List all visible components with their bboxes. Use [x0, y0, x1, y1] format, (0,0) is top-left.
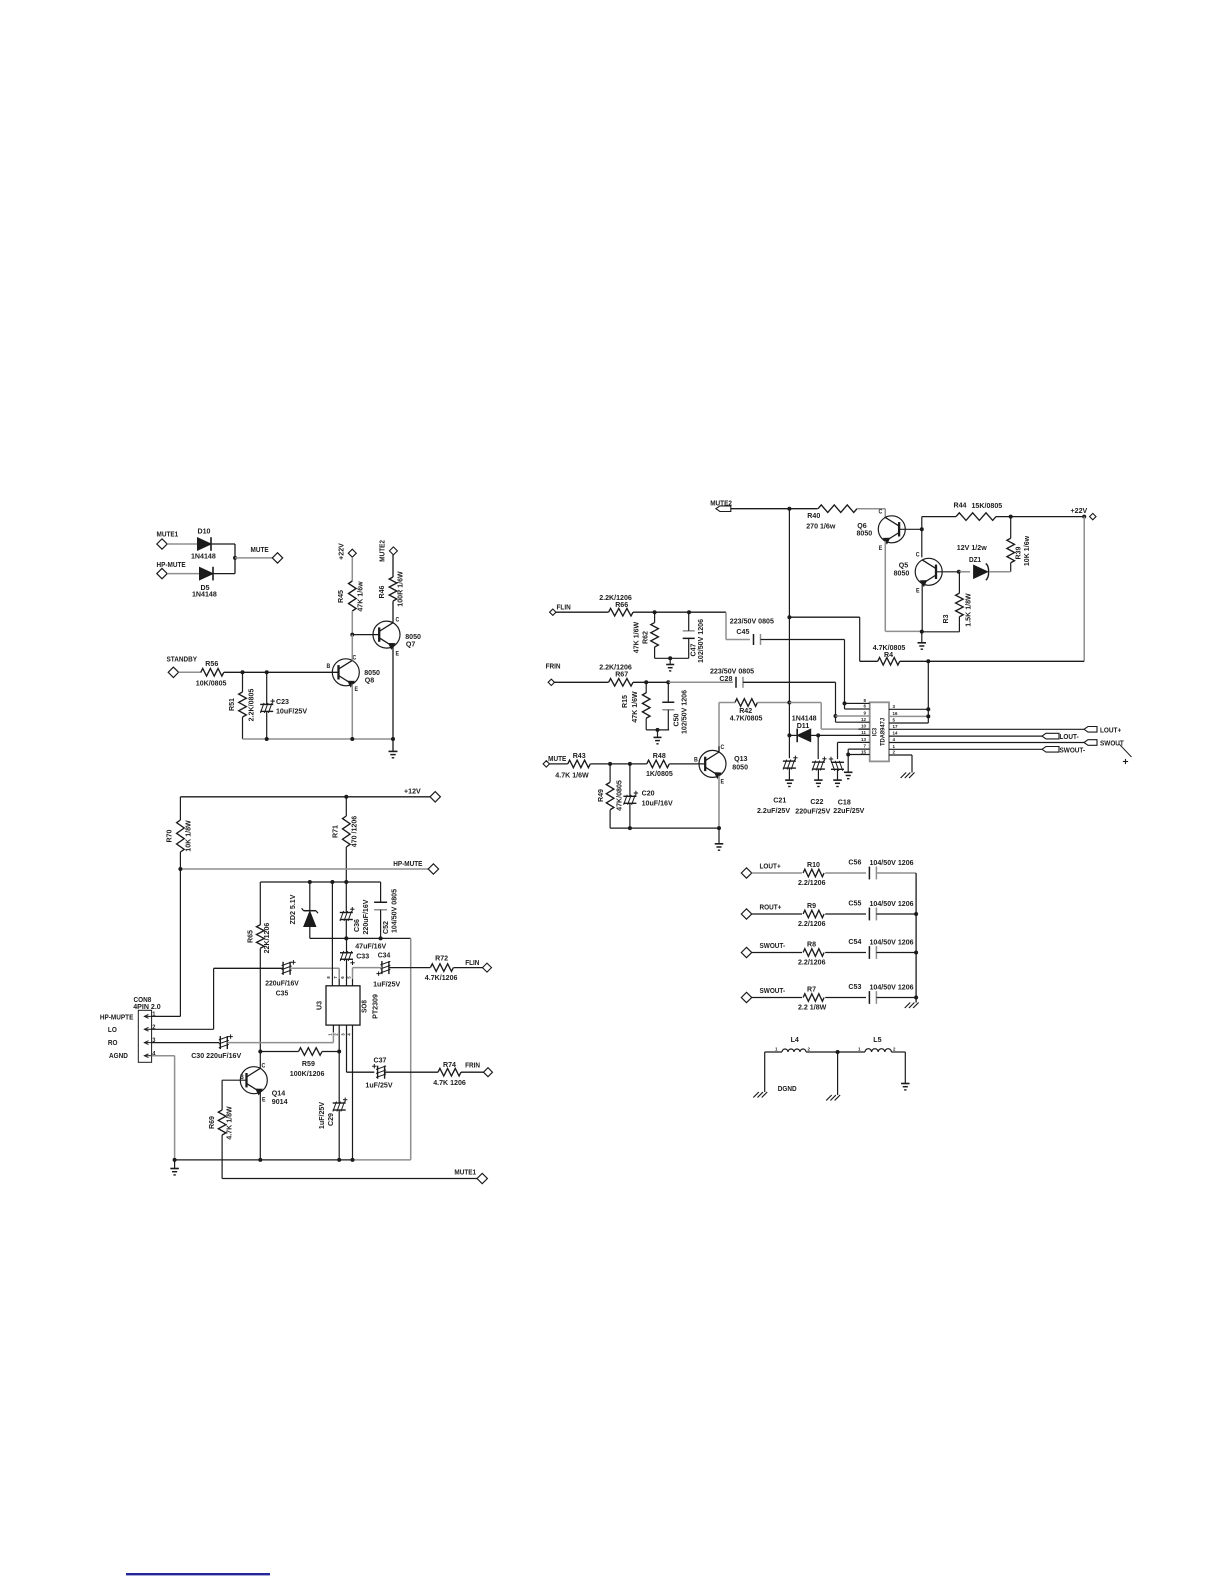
junction	[173, 1158, 355, 1162]
pin 11	[859, 730, 870, 735]
ground hatch	[905, 1003, 919, 1009]
ground	[715, 844, 724, 850]
svg-text:R62: R62	[640, 631, 649, 644]
capacitor C20	[623, 789, 672, 808]
svg-text:HP-MUPTE: HP-MUPTE	[100, 1014, 134, 1021]
wire	[921, 632, 923, 643]
wire	[655, 612, 689, 658]
ic U3 PT2309	[314, 986, 379, 1025]
junction	[337, 1050, 341, 1054]
node HP-MUPTE label	[100, 1014, 134, 1021]
svg-text:LO: LO	[108, 1027, 118, 1034]
resistor R66	[599, 593, 633, 616]
svg-text:10uF/25V: 10uF/25V	[276, 706, 307, 715]
svg-text:+12V: +12V	[404, 786, 421, 795]
node SWOUT tag	[1084, 740, 1125, 748]
wire	[259, 882, 261, 1052]
svg-text:HP-MUTE: HP-MUTE	[157, 562, 187, 569]
wire bus	[915, 873, 917, 1003]
svg-text:12V 1/2w: 12V 1/2w	[957, 543, 987, 552]
wire	[752, 997, 802, 999]
wire	[860, 660, 1084, 662]
wire	[837, 769, 839, 780]
node MUTE2 port	[379, 540, 397, 562]
svg-text:22K/1206: 22K/1206	[262, 923, 271, 954]
inductor L4	[775, 1035, 810, 1052]
wire	[806, 1051, 838, 1053]
diode D5	[192, 567, 217, 599]
capacitor C21	[757, 756, 798, 815]
junction	[843, 701, 847, 705]
wire	[646, 682, 669, 730]
svg-text:TDA8947J: TDA8947J	[880, 718, 886, 746]
resistor R42	[730, 699, 763, 723]
junction	[816, 733, 820, 737]
svg-text:DGND: DGND	[778, 1086, 797, 1093]
resistor R48	[646, 751, 673, 778]
capacitor C45	[730, 617, 774, 645]
transistor Q8	[327, 655, 380, 693]
wire	[243, 738, 394, 740]
svg-text:+22V: +22V	[336, 543, 345, 560]
svg-text:12: 12	[861, 717, 866, 722]
svg-text:RO: RO	[108, 1040, 118, 1047]
junction	[787, 701, 791, 705]
svg-text:4.7K 1206: 4.7K 1206	[433, 1078, 466, 1087]
capacitor C54	[848, 937, 913, 959]
svg-text:1uF/25V: 1uF/25V	[317, 1102, 326, 1129]
pin 4	[889, 737, 1084, 742]
wire	[876, 997, 916, 999]
svg-text:R40: R40	[807, 511, 820, 520]
transistor Q14	[240, 1063, 288, 1106]
connector pin 2	[144, 1025, 156, 1031]
node LOUT+ port	[741, 863, 780, 878]
svg-text:SWOUT-: SWOUT-	[1060, 747, 1086, 754]
pin 15	[848, 749, 870, 754]
svg-text:47K 1/6W: 47K 1/6W	[631, 622, 640, 654]
svg-text:4.7K 1/6W: 4.7K 1/6W	[555, 770, 589, 779]
svg-text:R10: R10	[807, 860, 820, 869]
wire	[836, 716, 859, 722]
wire	[259, 1052, 261, 1069]
wire	[718, 776, 720, 828]
junction	[787, 615, 791, 619]
svg-text:4.7K/1206: 4.7K/1206	[425, 973, 458, 982]
svg-text:102/50V 1206: 102/50V 1206	[696, 619, 705, 663]
resistor R8	[798, 939, 826, 966]
svg-text:+22V: +22V	[1071, 506, 1088, 515]
resistor R51	[227, 689, 256, 722]
pin stubs U3 top	[326, 976, 353, 986]
wire	[352, 1032, 354, 1160]
svg-text:R65: R65	[245, 930, 254, 943]
resistor R44	[954, 500, 1003, 520]
svg-text:11: 11	[861, 730, 866, 735]
resistor R4	[873, 643, 906, 665]
svg-text:C54: C54	[848, 937, 861, 946]
pin 1	[889, 744, 1042, 749]
wire	[837, 1052, 839, 1095]
svg-text:10K 1/8W: 10K 1/8W	[183, 820, 192, 852]
svg-text:R15: R15	[620, 695, 629, 708]
wire	[590, 763, 647, 765]
svg-text:R8: R8	[807, 939, 816, 948]
svg-text:E: E	[262, 1097, 266, 1103]
capacitor C55	[848, 898, 913, 920]
inductor L5	[858, 1035, 896, 1052]
svg-text:2.2K/0805: 2.2K/0805	[246, 689, 255, 722]
svg-text:FRIN: FRIN	[546, 663, 561, 670]
svg-text:SO8: SO8	[361, 1000, 368, 1013]
node LOUT- tag	[1042, 733, 1079, 741]
svg-text:22uF/25V: 22uF/25V	[833, 806, 864, 815]
svg-text:C21: C21	[773, 795, 786, 804]
wire	[633, 611, 726, 613]
svg-text:8050: 8050	[732, 762, 748, 771]
pin 12	[859, 717, 870, 722]
wire	[179, 671, 202, 673]
resistor R39	[1007, 535, 1031, 566]
ground hatch	[901, 773, 915, 779]
ground	[814, 780, 823, 786]
wire	[959, 571, 970, 573]
zener ZD2	[288, 882, 318, 938]
wire	[718, 746, 720, 752]
wire	[214, 968, 284, 1029]
wire	[310, 937, 411, 939]
wire	[410, 938, 412, 1160]
wire	[688, 612, 690, 658]
svg-text:R67: R67	[615, 669, 628, 678]
node FLIN port	[550, 604, 571, 615]
wire	[338, 1110, 340, 1160]
wire	[718, 828, 720, 844]
svg-text:47K 1/6w: 47K 1/6w	[355, 581, 364, 612]
node +12V port	[180, 786, 440, 802]
junction	[668, 656, 672, 660]
svg-text:2.2/1206: 2.2/1206	[798, 957, 826, 966]
wire	[461, 1071, 484, 1073]
svg-text:FRIN: FRIN	[465, 1062, 480, 1069]
svg-text:C: C	[879, 509, 883, 515]
svg-text:FLIN: FLIN	[557, 604, 571, 611]
capacitor C53	[848, 982, 913, 1004]
junction	[258, 1050, 262, 1054]
connector pin 3	[144, 1038, 156, 1045]
wire	[380, 882, 382, 938]
junction	[608, 762, 632, 766]
node FRIN port	[546, 663, 561, 685]
svg-text:1N4148: 1N4148	[192, 589, 217, 598]
svg-text:10K/0805: 10K/0805	[196, 678, 227, 687]
wire	[609, 764, 611, 828]
wire	[789, 703, 869, 730]
wire	[936, 571, 959, 573]
wire	[825, 997, 866, 999]
svg-text:2.2/1206: 2.2/1206	[798, 919, 826, 928]
wire	[876, 913, 916, 915]
wire	[847, 749, 849, 754]
ground	[918, 643, 927, 649]
pin 7	[848, 744, 870, 749]
wire	[876, 872, 916, 874]
node HP-MUTE port	[157, 562, 187, 579]
svg-text:10uF/16V: 10uF/16V	[642, 798, 673, 807]
resistor R74	[433, 1060, 466, 1087]
svg-text:4PIN 2.0: 4PIN 2.0	[133, 1002, 161, 1011]
wire	[825, 872, 866, 874]
wire	[550, 763, 568, 765]
svg-text:R49: R49	[596, 789, 605, 802]
svg-text:9014: 9014	[272, 1097, 288, 1106]
pin 16	[889, 711, 928, 716]
svg-text:R43: R43	[573, 751, 586, 760]
wire	[353, 968, 382, 979]
pin 14	[889, 731, 1042, 736]
svg-text:MUTE1: MUTE1	[157, 531, 179, 538]
transistor Q5	[894, 552, 943, 594]
wire	[789, 508, 817, 510]
ground	[833, 780, 842, 786]
resistor R59	[290, 1048, 325, 1078]
wire	[1083, 517, 1085, 662]
resistor R9	[798, 901, 826, 928]
footer rule	[126, 1573, 270, 1575]
junction	[787, 733, 791, 737]
svg-text:MUTE: MUTE	[251, 547, 270, 554]
zener DZ1	[957, 543, 989, 580]
junction	[834, 714, 838, 718]
junction	[926, 707, 930, 718]
svg-text:470 /1206: 470 /1206	[349, 816, 358, 847]
svg-text:C30 220uF/16V: C30 220uF/16V	[191, 1051, 241, 1060]
wire	[392, 601, 394, 623]
wire	[758, 702, 790, 704]
svg-text:8050: 8050	[857, 528, 873, 537]
svg-text:220uF/16V: 220uF/16V	[265, 980, 299, 987]
svg-text:R71: R71	[330, 825, 339, 838]
svg-text:E: E	[721, 779, 725, 785]
svg-text:C45: C45	[736, 627, 749, 636]
resistor R15	[620, 691, 650, 723]
wire	[752, 952, 802, 954]
transistor Q6	[857, 509, 906, 552]
svg-text:D10: D10	[198, 526, 211, 535]
wire	[179, 869, 181, 1016]
wire	[351, 635, 353, 661]
node MUTE1 port	[222, 1169, 487, 1184]
svg-text:R70: R70	[164, 830, 173, 843]
junction	[178, 867, 182, 871]
junction	[350, 633, 354, 637]
pin 9	[848, 711, 870, 716]
svg-text:10: 10	[861, 724, 866, 729]
svg-text:15K/0805: 15K/0805	[972, 501, 1003, 510]
svg-text:100R 1/6W: 100R 1/6W	[395, 571, 404, 607]
wire bottom rail	[175, 1159, 411, 1161]
svg-text:C: C	[262, 1063, 266, 1069]
node MUTE port	[543, 756, 567, 768]
wire	[788, 509, 790, 618]
node +22V port	[336, 543, 356, 560]
wire	[847, 755, 849, 773]
svg-text:R9: R9	[807, 901, 816, 910]
resistor R49	[596, 780, 624, 811]
resistor R71	[330, 816, 358, 847]
capacitor C50	[662, 690, 688, 734]
wire	[817, 769, 819, 780]
wire	[922, 572, 960, 632]
svg-text:15: 15	[861, 749, 866, 754]
svg-text:16: 16	[893, 711, 898, 716]
svg-text:47K/0805: 47K/0805	[614, 780, 623, 811]
svg-text:E: E	[916, 588, 920, 594]
svg-text:8050: 8050	[894, 568, 910, 577]
svg-text:270 1/6w: 270 1/6w	[806, 522, 836, 531]
wire	[152, 1042, 220, 1044]
svg-text:Q8: Q8	[365, 675, 374, 684]
wire	[845, 703, 859, 709]
svg-text:FLIN: FLIN	[465, 959, 479, 966]
ground hatch	[826, 1095, 840, 1101]
svg-text:ROUT+: ROUT+	[760, 904, 782, 911]
wire	[213, 558, 235, 574]
svg-text:1uF/25V: 1uF/25V	[373, 979, 400, 988]
svg-text:104/50V 1206: 104/50V 1206	[870, 858, 914, 867]
svg-text:4.7K/0805: 4.7K/0805	[730, 713, 763, 722]
junction	[920, 527, 924, 531]
resistor R72	[425, 953, 458, 982]
svg-text:47uF/16V: 47uF/16V	[355, 941, 386, 950]
junction	[350, 737, 354, 741]
junction	[628, 826, 721, 830]
svg-text:4.7K 1/8W: 4.7K 1/8W	[224, 1106, 233, 1140]
wire	[260, 881, 380, 883]
svg-text:C35: C35	[276, 990, 289, 997]
svg-text:PT2309: PT2309	[370, 994, 379, 1019]
wire	[922, 517, 956, 530]
resistor R43	[555, 751, 590, 780]
transistor Q7	[373, 617, 421, 657]
ground	[170, 1169, 179, 1175]
svg-text:C29: C29	[326, 1113, 335, 1126]
wire	[921, 529, 923, 557]
node SWOUT- port	[741, 943, 785, 958]
svg-text:HP-MUTE: HP-MUTE	[393, 861, 423, 868]
junction	[644, 680, 670, 684]
capacitor C29	[317, 1098, 348, 1130]
junction	[926, 659, 930, 663]
connector CON8	[133, 996, 161, 1062]
svg-text:2.2 1/8W: 2.2 1/8W	[798, 1002, 827, 1011]
diode D10	[191, 526, 216, 560]
svg-text:13: 13	[861, 737, 866, 742]
junction	[656, 728, 660, 732]
wire	[789, 617, 859, 661]
resistor R67	[599, 662, 633, 686]
node MUTE1 port	[157, 531, 179, 549]
wire	[352, 634, 379, 636]
wire	[555, 681, 609, 683]
wire	[174, 1160, 176, 1169]
svg-text:D11: D11	[797, 721, 810, 730]
node MUTE2 tag	[710, 500, 732, 511]
capacitor C35	[265, 960, 299, 997]
wire	[818, 734, 870, 736]
wire	[761, 640, 845, 704]
svg-text:E: E	[355, 687, 359, 693]
node FRIN port	[465, 1062, 492, 1076]
svg-text:MUTE: MUTE	[548, 756, 567, 763]
pin 6	[859, 704, 870, 709]
wire	[224, 671, 339, 673]
svg-text:R59: R59	[302, 1059, 315, 1068]
svg-text:C: C	[721, 745, 725, 751]
junction	[391, 737, 395, 741]
capacitor C36	[340, 899, 370, 934]
wire	[152, 1028, 214, 1030]
wire	[556, 611, 609, 613]
resistor R40	[806, 505, 857, 531]
wire	[743, 682, 836, 716]
node MUTE port	[251, 547, 283, 564]
wire	[911, 755, 913, 773]
wire	[788, 768, 790, 780]
node SWOUT- tag	[1042, 747, 1086, 755]
annotation mark	[1119, 744, 1131, 764]
svg-text:1N4148: 1N4148	[191, 551, 216, 560]
svg-text:47K 1/6W: 47K 1/6W	[630, 691, 639, 723]
capacitor C56	[848, 857, 913, 879]
connector pin 1	[144, 1012, 156, 1018]
svg-text:R69: R69	[207, 1116, 216, 1129]
svg-text:SWOUT-: SWOUT-	[760, 943, 786, 950]
resistor R56	[196, 659, 227, 687]
junction	[308, 880, 349, 884]
node STANDBY port	[167, 656, 198, 677]
pin 8	[859, 698, 870, 703]
ground	[844, 772, 853, 778]
capacitor C33	[340, 941, 386, 965]
resistor R65	[245, 923, 271, 954]
svg-text:DZ1: DZ1	[969, 556, 981, 563]
wire	[825, 952, 866, 954]
wire	[211, 544, 235, 558]
svg-text:223/50V 0805: 223/50V 0805	[730, 617, 774, 626]
wire	[351, 684, 353, 739]
svg-text:B: B	[327, 664, 331, 670]
wire	[385, 1071, 438, 1073]
wire	[825, 913, 866, 915]
wire	[167, 573, 199, 575]
svg-text:C53: C53	[848, 982, 861, 991]
wire	[921, 584, 923, 632]
wire	[789, 734, 818, 736]
svg-text:1.5K 1/8W: 1.5K 1/8W	[963, 593, 972, 627]
wire	[392, 555, 394, 577]
svg-text:MUTE1: MUTE1	[454, 1169, 476, 1176]
resistor R62	[631, 622, 658, 654]
resistor R69	[207, 1106, 234, 1140]
wire	[345, 797, 347, 882]
svg-text:C55: C55	[848, 898, 861, 907]
wire	[838, 1051, 865, 1053]
resistor R45	[336, 581, 365, 612]
wire	[454, 967, 483, 969]
svg-text:C56: C56	[848, 857, 861, 866]
wire	[726, 612, 750, 639]
